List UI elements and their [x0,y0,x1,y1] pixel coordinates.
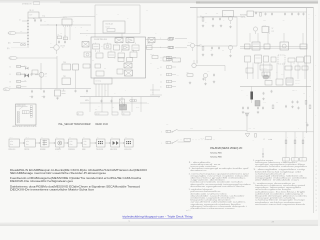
svg-text:0.1: 0.1 [164,55,166,57]
transistor Q1 [50,42,65,54]
block row3 b3 [108,52,115,58]
IC box U2 [62,62,71,70]
svg-text:P 30: P 30 [305,122,308,124]
ground G1 [31,95,33,98]
wire top rail y25 [40,24,91,26]
pin stubs to bottom labels [90,97,141,112]
transistor Q2 [35,72,48,78]
page number 29 [272,221,275,224]
rb row3 b1 [276,79,283,85]
mixer M2 [124,63,132,68]
transistor Q3 [187,42,200,52]
rb row1 b7 [297,57,304,62]
capacitor C33 [75,89,77,92]
svg-text:78L05: 78L05 [263,25,267,27]
svg-text:2n2: 2n2 [216,13,218,15]
ground G7 [229,25,231,28]
block diagram stage S5 [82,137,90,151]
svg-text:3: 3 [316,206,317,208]
dark ellipse component [263,75,269,79]
IC box top mid-left [62,17,72,27]
resistor R22 [199,44,204,51]
connector (B) label [8,41,20,44]
deck connector table [16,104,37,125]
block row3 b1 [84,52,91,57]
svg-text:video: video [190,128,193,130]
block arrow 2 [35,142,40,143]
svg-text:VA JRE TDA 4510: VA JRE TDA 4510 [94,38,107,41]
label block top right [240,15,247,19]
block RB1 [245,44,251,49]
svg-text:12V S2: 12V S2 [200,138,204,140]
component box between [147,46,153,50]
rb row1 b1 [245,56,251,62]
connector P out2 [168,46,173,48]
wire IC out1 [146,39,169,41]
svg-text:decoderau sgangdend esistauch: decoderau sgangdend esistauch decke [191,185,245,188]
dropper x303 [300,132,307,161]
svg-text:6: 6 [316,182,317,184]
vertical wire x57 [56,56,58,89]
svg-text:75R: 75R [249,128,251,130]
block diagram stage S6 [96,137,105,151]
connector JL1 [160,56,176,59]
dashes x269 [269,27,271,34]
ground G13 [213,80,215,83]
svg-text:IC 7: IC 7 [241,90,244,92]
connector K1 [160,37,187,40]
svg-text:4M43: 4M43 [136,107,140,109]
block diagram stage S8 [124,137,133,151]
svg-text:BC: BC [235,17,237,19]
resistor R11 cluster [33,18,42,22]
connector P out1 [168,38,173,40]
rb row2 b2 [285,66,292,70]
svg-text:VERZOEG: VERZOEG [68,149,76,151]
svg-text:12: 12 [160,67,162,69]
connector J2 pin 12 [10,65,27,68]
svg-text:17.4: 17.4 [42,15,45,17]
block arrow 8 [120,142,125,143]
cluster row2 wire [197,45,237,47]
ground G3 [56,97,58,100]
relay RL1 box [28,10,39,18]
svg-text:22p: 22p [95,109,97,111]
transistor Q6 [192,60,225,71]
capacitor C74 [291,12,293,15]
box filter top right [223,11,234,17]
capacitor C41 [111,99,113,102]
labels right margin [308,14,310,20]
svg-text:12: 12 [10,66,12,68]
svg-text:NETZTEIL: NETZTEIL [240,15,247,17]
resistor R31 [186,72,193,77]
capacitor C54 [218,46,220,49]
block row3 b2 [96,53,103,58]
connector J5 pin 9 [10,86,27,89]
svg-text:12 13 14: 12 13 14 [96,81,102,83]
block diagram pin stub [59,147,60,153]
bottom pin label 1 [77,112,83,115]
svg-text:rev 1.2: rev 1.2 [186,210,191,212]
long wire to right [178,131,314,132]
wire into relay [19,20,28,22]
dashed control line [178,139,215,142]
svg-text:15: 15 [160,87,162,89]
block arrow 3 [49,142,56,143]
svg-text:DECK I/II-D: DECK I/II-D [96,123,109,126]
svg-text:12V: 12V [219,128,221,130]
capacitor C75 [298,12,300,15]
ground triangle [245,134,250,138]
svg-text:47n: 47n [303,93,305,95]
wire relay to right rail [39,15,95,18]
svg-text:8k2: 8k2 [92,60,94,62]
svg-text:FILTER: FILTER [24,149,29,151]
block diagram stage S2 [40,137,49,151]
svg-text:2k2: 2k2 [178,61,180,63]
wire stub SW2 [178,141,191,143]
comp near SW2 [184,138,191,141]
label NTC [177,71,210,78]
svg-text:RL 3.1: RL 3.1 [30,10,35,12]
capacitor C21 bowtie [20,65,28,70]
switch S2 [172,140,178,143]
ground G12 [204,82,206,85]
svg-text:12k: 12k [60,33,62,35]
svg-text:C-Cx 4.43: C-Cx 4.43 [147,43,154,45]
dropper x286 [283,132,290,161]
svg-text:4MHz: 4MHz [85,100,89,102]
block b9 [83,64,90,68]
outer filter enclosure [80,5,140,34]
rb grid box [262,72,270,76]
svg-text:56k: 56k [47,24,49,26]
ground G6 [220,24,222,27]
svg-text:ZF VIDEO 12V: ZF VIDEO 12V [22,4,33,6]
wire y16.5 left [200,16,245,18]
scan bottom edge band [0,220,320,226]
svg-text:2n2: 2n2 [104,68,106,70]
capacitor C72 [271,12,273,15]
svg-text:CONN. DECK: CONN. DECK [17,105,27,107]
title PAL SECAM TRANSCODER [59,123,109,126]
svg-text:2: 2 [316,202,317,204]
svg-text:PAL/RGB (MESS VIDEO) I/O: PAL/RGB (MESS VIDEO) I/O [210,147,242,150]
pin area labels [86,90,126,95]
svg-text:8k2 1n: 8k2 1n [150,54,154,56]
component pair small circles [20,43,26,46]
amp A1 [126,38,134,43]
paragraph text line 1 [10,169,147,172]
connector SW2 [161,141,171,144]
svg-text:13: 13 [160,75,162,77]
comp cluster x255 [255,11,261,16]
svg-text:DECKI/II-Da nzusaetzlic heSign: DECKI/II-Da nzusaetzlic heSignalean ges [10,180,74,183]
svg-text:22 23: 22 23 [96,113,100,115]
rb row2 b3 [295,66,300,70]
capacitor C62 [203,77,205,80]
svg-text:1: 1 [316,198,317,200]
bottom pin label 3 [112,112,118,115]
block row3 b4 [118,53,125,58]
IC interior labels [92,43,137,70]
svg-text:5: 5 [316,178,317,180]
svg-text:4.43MHz: 4.43MHz [295,80,301,82]
labels y90 [292,90,305,95]
labels left of IC [80,27,89,36]
mixer M1 [115,38,123,43]
sheet right border line [313,8,315,213]
svg-text:11: 11 [160,58,162,60]
sheet right margin [318,0,320,226]
service notes column 1 [189,162,251,210]
block diagram stage S3 [55,137,64,151]
right stubs [150,84,162,95]
svg-text:MISCHER: MISCHER [110,149,117,151]
block b8 [117,69,123,74]
connector J3 pin 11 [10,73,27,76]
coil L1 [130,99,137,102]
block row2 b5 [132,45,139,51]
blue hyperlink caption [123,215,193,223]
block row3 b5 [130,52,137,58]
svg-text:1k8: 1k8 [253,128,255,130]
antenna symbol [245,112,249,131]
connector JL3 [160,73,176,76]
box PSU right [247,11,254,17]
svg-text:30p: 30p [112,107,114,109]
rb row1 b2 [255,55,262,63]
svg-text:2: 2 [316,166,317,168]
svg-text:R: R [287,137,288,139]
vertical x197 lower stub [196,60,198,64]
rb row2 wide [260,65,272,70]
rb verticals [248,63,306,80]
svg-text:100k: 100k [199,44,202,46]
oval connector AO [3,88,18,91]
block RB3 [264,44,270,49]
block diagram stage S7 [110,137,120,151]
resistor R21 [200,15,204,21]
svg-text:tripledeckthing-blogspot-com: tripledeckthing-blogspot-com - Triple De… [123,215,193,219]
connector K2 [160,46,187,49]
connector JL2 [160,66,176,69]
svg-text:25: 25 [123,113,125,115]
component C81 [263,92,265,95]
capacitor C71 [263,12,267,21]
mixer M4 right outside [148,38,155,43]
bus line y96.5 [80,96,160,98]
svg-text:chromaauc hzurtrans codernorm: chromaauc hzurtrans codernorm pegeldeco [255,165,307,168]
component C82 [271,90,273,93]
block row2 b1 [93,44,100,49]
svg-text:+12V 5V: +12V 5V [240,17,247,19]
rb row1 b8 [305,56,311,63]
connector JL4 [160,80,176,83]
svg-text:1: 1 [316,162,317,164]
svg-text:4k7: 4k7 [208,71,210,73]
transistor Q4 [228,16,236,24]
connector JL0b [160,58,172,61]
box reg U5 [262,25,269,33]
ground G8 [202,53,204,56]
horizontal rail y88.5 [18,88,91,90]
page ref numbers right margin [316,162,317,212]
svg-text:5k6: 5k6 [222,50,224,52]
cluster row1 wire [197,16,237,18]
svg-text:0.47: 0.47 [20,31,23,33]
svg-text:75R: 75R [166,124,168,126]
transistor Q5 [228,45,232,53]
component D5 [62,89,66,94]
mixer M3 [125,70,133,76]
block arrow 4 [64,142,69,143]
svg-text:4k7: 4k7 [62,47,64,49]
svg-text:12 13: 12 13 [263,102,266,104]
long rail y86.5 [240,86,311,88]
title block line 3 [210,156,222,158]
svg-text:100: 100 [39,18,42,20]
ground G5 [212,24,214,27]
block arrow 7 [105,142,111,143]
svg-text:8: 8 [316,190,317,192]
svg-text:SECAMManage mentnurmitz usaetz: SECAMManage mentnurmitz usaetzliche rDec… [10,172,107,175]
svg-text:220k 1n: 220k 1n [292,90,297,92]
capacitor C34 [84,89,88,97]
capacitor C32 [41,90,45,98]
bottom pin label 2 [95,112,108,115]
rb row1 b3 [264,56,269,62]
label deck header text [22,2,40,6]
wire IC out2 [146,47,169,49]
label left of bus [85,100,89,102]
capacitor C53 [211,46,213,49]
svg-text:14: 14 [160,82,162,84]
svg-text:10u: 10u [283,20,285,22]
service notes column 2 [253,159,308,206]
svg-text:10: 10 [10,81,12,83]
label cluster below right [150,54,181,63]
svg-text:12: 12 [19,20,21,22]
block b6 delay [118,58,124,62]
svg-text:1k5: 1k5 [64,35,66,37]
labels mid right [272,28,276,33]
dark component cluster [120,105,127,111]
svg-text:JRL 1: JRL 1 [10,137,14,139]
svg-text:eindeckeu ebernurei nvom: eindeckeu ebernurei nvom [191,207,236,210]
capacitor C73 [283,12,287,21]
block RB2 [252,42,260,50]
svg-text:0.1u: 0.1u [281,74,284,76]
junction node A [56,24,57,42]
switch S1 [172,129,178,132]
svg-text:DECKI/II-De ineweiterez usaetz: DECKI/II-De ineweiterez usaetzliche Matr… [10,189,95,192]
svg-text:10n: 10n [210,50,212,52]
IC interior pin stubs [96,43,136,52]
block RB5 [300,44,307,49]
grounds bottom right [242,97,294,113]
labels y103 [263,102,278,104]
input filter box [103,21,125,33]
IC U1 TDA4510 outline [91,37,146,78]
bus wire y48 [240,47,307,49]
svg-text:ST: ST [55,88,57,90]
svg-text:B: B [304,137,305,139]
svg-text:9: 9 [316,194,317,196]
bottom row comps [242,105,311,110]
capacitor C52 [219,17,221,20]
mixer M0 outside [82,42,89,48]
ground G10 [229,54,231,57]
svg-text:100k: 100k [186,72,189,74]
diode ladder on left bus [27,20,29,45]
svg-text:3k3: 3k3 [150,63,152,65]
connector JL5 [160,85,176,88]
oval connector lower [9,56,17,59]
block RB4 [280,42,289,50]
vertical wire x41 [40,63,42,90]
dotted wire (R) [7,47,26,50]
svg-text:10k: 10k [205,13,207,15]
svg-text:47n: 47n [157,68,159,70]
rb row1 b4 [271,57,276,62]
label C-Cx [147,43,154,45]
paragraph text line 6 [10,189,95,192]
label cluster switch [200,137,212,140]
right margin labels mid [305,122,309,127]
block row2 b3 [114,45,120,50]
IC U1 label [94,38,107,41]
svg-text:7: 7 [316,186,317,188]
IC box U4 [62,76,71,85]
svg-text:PAL_SECAM TRANSCODER: PAL_SECAM TRANSCODER [59,123,91,126]
svg-text:21: 21 [78,113,80,115]
block arrow 1 [20,142,25,143]
svg-text:decoderei nz: decoderei nz [191,169,207,172]
bus line y103 [80,102,147,104]
IC box U3 [73,64,79,70]
rb row1 b6 [288,58,295,62]
connector table caption [13,125,37,128]
RC network mid-left [57,34,68,44]
paragraph text line 5 [10,186,141,189]
svg-text:4: 4 [316,174,317,176]
svg-text:JRL 2: JRL 2 [25,137,29,139]
connector (G-Y) oval [8,31,28,34]
svg-text:102: 102 [24,80,26,82]
svg-text:10k 10k 4n7: 10k 10k 4n7 [106,24,114,26]
svg-text:G: G [296,137,297,139]
tiny gray note above link [186,210,191,212]
ground G2 [43,95,45,98]
rb row2 b4 [302,66,308,70]
block row2 b4 [122,45,129,50]
svg-text:BF199: BF199 [188,42,192,44]
transistor Q7 [203,73,207,81]
sheet top border line [190,7,314,9]
svg-text:4n7: 4n7 [33,18,36,20]
capacitor C61 [213,73,215,76]
inner right vertical bus [306,8,308,133]
svg-text:1/2: 1/2 [263,139,265,141]
svg-text:Schema 7806: Schema 7806 [210,156,222,158]
wires from IC box down [65,27,70,40]
vertical feed x197 [196,8,198,64]
block diagram stage JRL 1 [9,137,20,151]
rb left box [246,68,253,73]
dark cluster2 [255,101,260,107]
